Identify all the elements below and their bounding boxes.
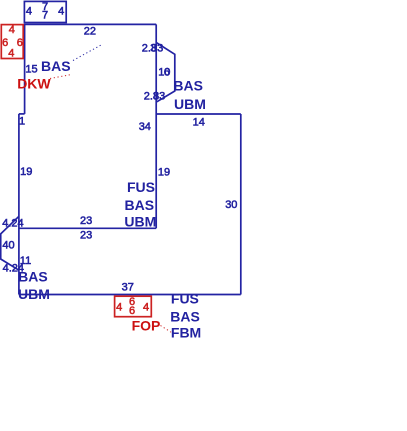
svg-text:4: 4	[8, 48, 14, 60]
svg-text:15: 15	[25, 63, 37, 75]
svg-text:UBM: UBM	[18, 286, 50, 302]
svg-text:14: 14	[193, 116, 205, 128]
svg-text:BAS: BAS	[170, 309, 200, 325]
svg-text:7: 7	[42, 9, 48, 21]
svg-text:FUS: FUS	[127, 179, 155, 195]
svg-text:6: 6	[164, 67, 170, 79]
svg-text:19: 19	[20, 166, 32, 178]
svg-text:BAS: BAS	[41, 58, 71, 74]
svg-text:19: 19	[158, 166, 170, 178]
svg-text:6: 6	[129, 305, 135, 317]
svg-text:4.24: 4.24	[2, 218, 23, 230]
svg-text:FBM: FBM	[171, 325, 201, 341]
svg-text:22: 22	[84, 25, 96, 37]
svg-text:UBM: UBM	[124, 214, 156, 230]
svg-text:4: 4	[116, 301, 122, 313]
svg-text:4: 4	[143, 301, 149, 313]
svg-text:34: 34	[139, 121, 151, 133]
svg-text:37: 37	[122, 281, 134, 293]
svg-text:BAS: BAS	[18, 268, 48, 284]
svg-text:4: 4	[9, 24, 15, 36]
svg-text:23: 23	[80, 229, 92, 241]
svg-text:30: 30	[225, 199, 237, 211]
svg-text:23: 23	[80, 215, 92, 227]
svg-text:6: 6	[2, 37, 8, 49]
svg-text:BAS: BAS	[173, 78, 203, 94]
svg-text:FUS: FUS	[171, 290, 199, 306]
svg-text:UBM: UBM	[174, 96, 206, 112]
svg-text:4: 4	[58, 6, 64, 18]
svg-text:6: 6	[17, 37, 23, 49]
svg-text:FOP: FOP	[132, 318, 161, 334]
svg-text:4: 4	[26, 6, 32, 18]
svg-text:3: 3	[153, 91, 159, 103]
svg-text:3: 3	[150, 42, 156, 54]
svg-text:DKW: DKW	[17, 76, 51, 92]
svg-text:BAS: BAS	[125, 197, 155, 213]
svg-text:1: 1	[19, 115, 25, 127]
svg-text:40: 40	[2, 239, 14, 251]
